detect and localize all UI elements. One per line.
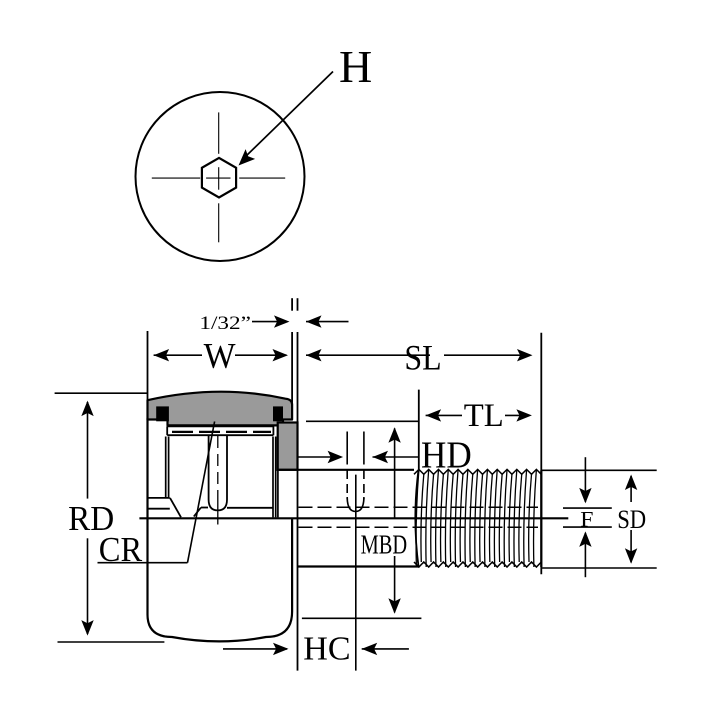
channel ledge (201, 507, 208, 509)
thread top crest zigzag (414, 469, 541, 474)
H leader arrow (243, 72, 333, 160)
HD extension lines (346, 432, 348, 465)
thread flank lines (416, 469, 419, 567)
hex socket (202, 158, 236, 198)
flange face extension line (297, 298, 299, 311)
axial hole hidden top (299, 506, 539, 508)
needle centerline dashed (172, 431, 271, 433)
horizontal centerline (152, 177, 200, 179)
right retaining ring (black square) (273, 406, 283, 421)
thread bottom crest zigzag (414, 562, 541, 567)
lube hole center line / HC right extension (355, 475, 357, 671)
lube hole hidden lines (346, 470, 348, 499)
MBD bottom line (302, 617, 422, 619)
channel centerline (217, 436, 219, 491)
F top line (563, 507, 612, 509)
needle roller strip (167, 425, 273, 427)
thread runout curve (415, 470, 418, 567)
roller lower half outline (148, 518, 293, 641)
dimension W (154, 354, 202, 356)
svg-text:W: W (204, 336, 236, 376)
svg-text:MBD: MBD (361, 530, 408, 560)
SD bottom extension line (541, 567, 656, 569)
svg-text:HC: HC (303, 630, 350, 667)
RD bottom extension line (58, 641, 165, 643)
dimension SD line (630, 476, 632, 502)
roller end-view circle (136, 92, 305, 261)
dimension TL (426, 414, 462, 416)
SD top extension line (541, 469, 656, 471)
1/32 right-pointing arrow (252, 321, 284, 323)
svg-text:H: H (339, 41, 372, 92)
axial hole hidden bottom (299, 526, 539, 528)
thread end face (540, 471, 542, 568)
roller outer ring crown (gray cap) (148, 392, 293, 426)
1/32 left-pointing arrow (306, 321, 349, 323)
center channel (lube bore) (209, 436, 227, 511)
right wall inner lines (272, 437, 274, 518)
left retaining ring (black square) (156, 406, 169, 421)
TL left extension line (418, 390, 420, 470)
RD top extension line (55, 392, 148, 394)
lube hole U bottom (347, 497, 364, 512)
left chamfer diagonal (170, 498, 181, 517)
stud top line (278, 469, 414, 471)
svg-text:F: F (580, 507, 593, 532)
CR leader (98, 562, 188, 564)
svg-text:SL: SL (404, 338, 441, 378)
svg-text:1/32”: 1/32” (199, 313, 251, 334)
stud flange (gray) (278, 423, 298, 470)
left wall inner lines (165, 437, 167, 498)
vertical centerline (218, 112, 220, 153)
dimension RD line (87, 402, 89, 499)
dimension HD arrows (298, 456, 342, 458)
left step lines (148, 497, 170, 499)
MBD top line (306, 420, 419, 422)
SL right extension line (540, 333, 542, 575)
dimension MBD line (394, 428, 396, 518)
stud bottom line (298, 565, 420, 567)
dimension HC arrows (223, 648, 287, 650)
assembly centerline (139, 517, 568, 519)
svg-text:TL: TL (464, 398, 504, 434)
dimension SL (306, 354, 430, 356)
dimension F line (584, 457, 586, 502)
roller face extension line (291, 298, 293, 311)
svg-text:SD: SD (617, 504, 646, 534)
channel ledge diagonal (194, 508, 201, 517)
W extension line left / roller left face (147, 331, 149, 401)
F bottom line (563, 526, 612, 528)
right ledge (227, 507, 273, 509)
